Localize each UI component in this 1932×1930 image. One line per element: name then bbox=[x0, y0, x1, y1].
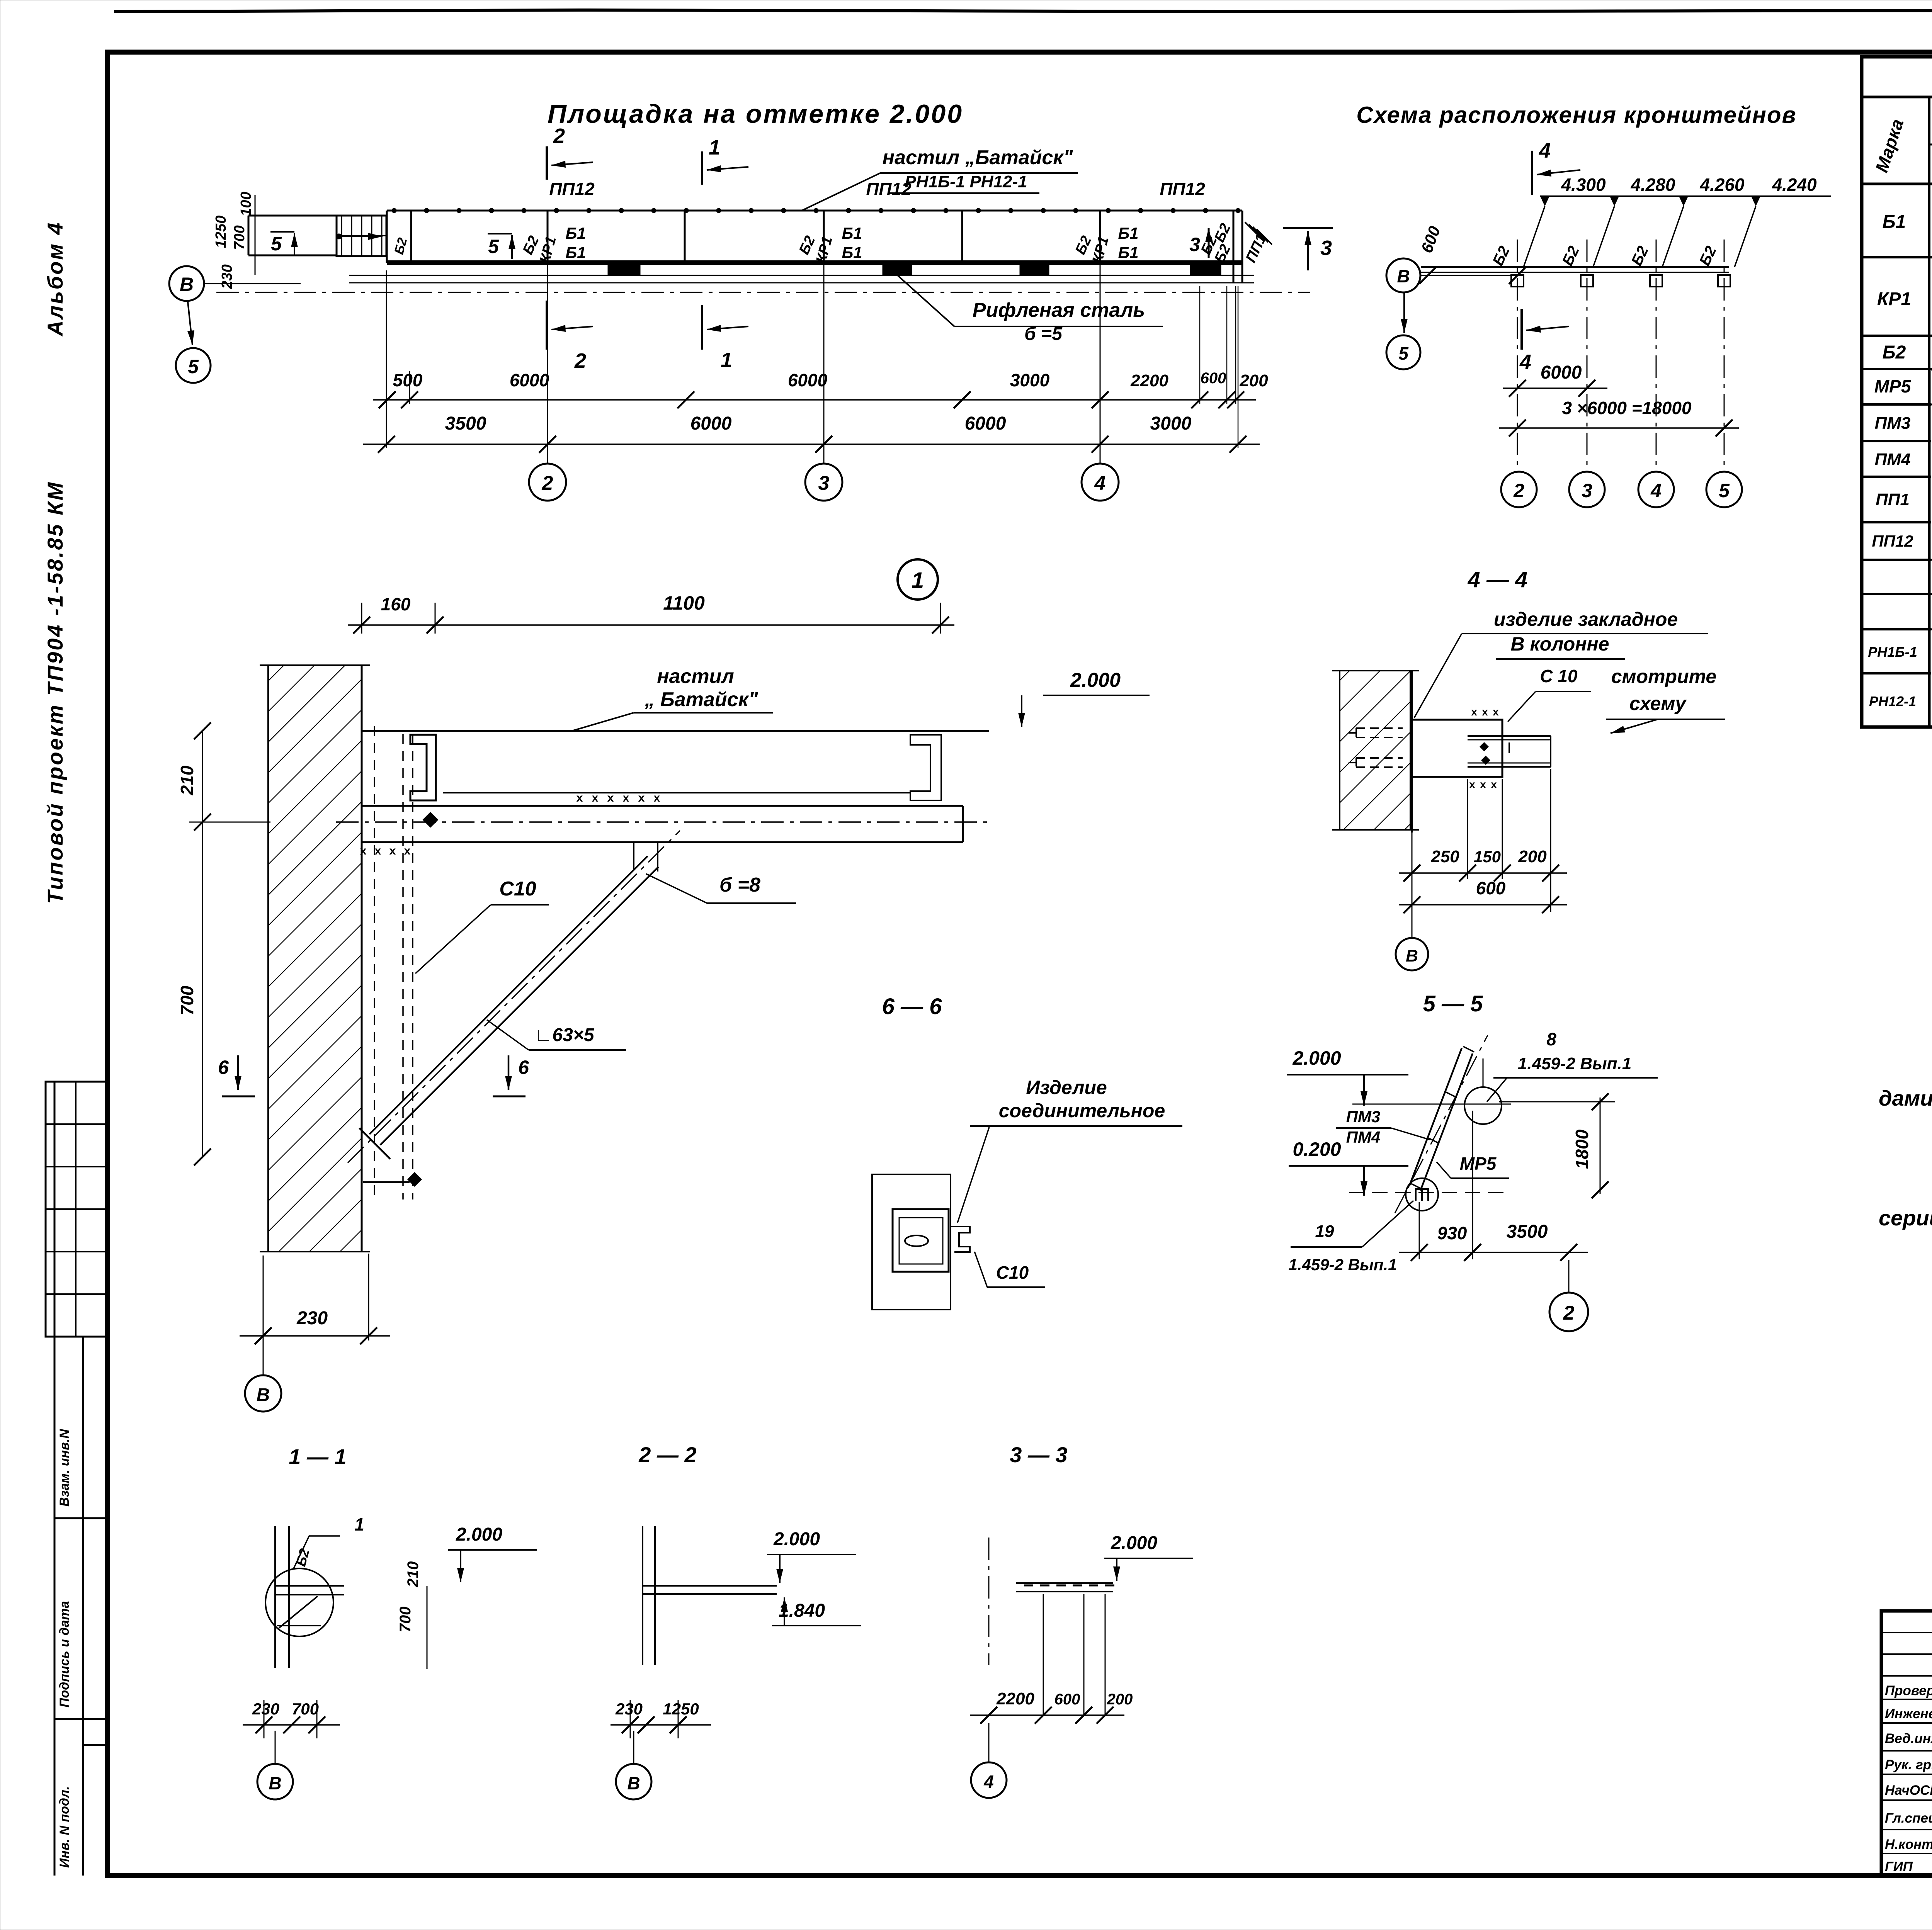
svg-text:230: 230 bbox=[252, 1700, 279, 1718]
svg-text:В: В bbox=[257, 1385, 270, 1405]
svg-text:4 — 4: 4 — 4 bbox=[1468, 567, 1528, 592]
svg-text:2: 2 bbox=[1563, 1302, 1575, 1324]
svg-text:250: 250 bbox=[1430, 847, 1459, 866]
svg-text:В: В bbox=[627, 1773, 640, 1793]
svg-text:2.000: 2.000 bbox=[1070, 669, 1121, 691]
svg-text:Б1: Б1 bbox=[1118, 224, 1138, 242]
svg-text:x: x bbox=[404, 844, 411, 857]
svg-text:ПМ3: ПМ3 bbox=[1875, 414, 1911, 433]
svg-text:3000: 3000 bbox=[1150, 413, 1192, 434]
svg-text:Б1: Б1 bbox=[1118, 243, 1138, 262]
svg-text:4: 4 bbox=[1519, 350, 1531, 374]
svg-text:настил „Батайск": настил „Батайск" bbox=[883, 146, 1073, 169]
svg-text:ПМ3: ПМ3 bbox=[1346, 1108, 1381, 1126]
svg-text:230: 230 bbox=[219, 264, 235, 289]
svg-text:Типовой проект ТП904 -1-58: Типовой проект ТП904 -1-58.85 КМ bbox=[43, 481, 67, 904]
svg-text:смотрите: смотрите bbox=[1611, 666, 1717, 687]
svg-text:x: x bbox=[638, 792, 645, 804]
svg-text:3: 3 bbox=[818, 472, 830, 494]
svg-text:5: 5 bbox=[188, 356, 199, 377]
svg-text:1.459-2 Вып.1: 1.459-2 Вып.1 bbox=[1518, 1054, 1631, 1073]
svg-text:Взам. инв.N: Взам. инв.N bbox=[57, 1429, 72, 1507]
svg-text:4.280: 4.280 bbox=[1630, 175, 1675, 195]
svg-text:x: x bbox=[1482, 706, 1488, 718]
svg-text:настил: настил bbox=[657, 665, 734, 688]
svg-text:Н.контр.: Н.контр. bbox=[1885, 1837, 1932, 1852]
svg-text:150: 150 bbox=[1474, 848, 1501, 866]
svg-text:5: 5 bbox=[1398, 343, 1409, 364]
svg-text:В колонне: В колонне bbox=[1510, 633, 1609, 655]
svg-text:ПМ4: ПМ4 bbox=[1875, 450, 1911, 469]
svg-text:x: x bbox=[607, 792, 614, 804]
svg-text:РН1Б-1 РН12-1: РН1Б-1 РН12-1 bbox=[905, 172, 1027, 191]
svg-text:4.300: 4.300 bbox=[1561, 175, 1606, 195]
svg-text:6000: 6000 bbox=[510, 370, 549, 390]
svg-text:ПМ4: ПМ4 bbox=[1346, 1128, 1381, 1146]
svg-text:700: 700 bbox=[231, 225, 248, 250]
svg-text:100: 100 bbox=[238, 192, 254, 216]
svg-text:2: 2 bbox=[574, 349, 586, 372]
svg-text:Рук. гр.: Рук. гр. bbox=[1885, 1757, 1932, 1772]
svg-text:ПП1: ПП1 bbox=[1876, 490, 1910, 509]
svg-text:МР5: МР5 bbox=[1874, 376, 1912, 396]
svg-text:3: 3 bbox=[1320, 236, 1332, 260]
svg-text:Площадка на отметке 2.000: Площадка на отметке 2.000 bbox=[548, 99, 963, 129]
svg-text:2: 2 bbox=[542, 472, 553, 494]
svg-text:600: 600 bbox=[1054, 1691, 1080, 1708]
svg-text:Альбом 4: Альбом 4 bbox=[43, 221, 67, 337]
svg-text:x: x bbox=[1471, 706, 1477, 718]
svg-text:2 — 2: 2 — 2 bbox=[638, 1442, 696, 1467]
svg-text:6: 6 bbox=[518, 1057, 529, 1078]
svg-text:серии 1.459- 2 Вып. 1.: серии 1.459- 2 Вып. 1. bbox=[1879, 1206, 1932, 1230]
svg-text:600: 600 bbox=[1201, 370, 1226, 387]
svg-text:19: 19 bbox=[1315, 1222, 1334, 1241]
svg-text:0.200: 0.200 bbox=[1293, 1138, 1341, 1160]
svg-text:В: В bbox=[269, 1773, 281, 1793]
svg-text:Б2: Б2 bbox=[1883, 342, 1906, 363]
svg-text:2: 2 bbox=[1513, 480, 1524, 501]
svg-text:x: x bbox=[592, 792, 599, 804]
svg-text:3 — 3: 3 — 3 bbox=[1010, 1442, 1067, 1467]
svg-text:ГИП: ГИП bbox=[1885, 1859, 1913, 1874]
svg-text:соединительное: соединительное bbox=[999, 1100, 1165, 1121]
svg-text:6000: 6000 bbox=[1541, 362, 1582, 383]
svg-text:∟63×5: ∟63×5 bbox=[534, 1025, 594, 1045]
svg-text:x: x bbox=[375, 844, 381, 857]
svg-text:210: 210 bbox=[405, 1561, 422, 1588]
svg-text:5 — 5: 5 — 5 bbox=[1423, 991, 1483, 1016]
svg-text:700: 700 bbox=[177, 985, 197, 1015]
svg-text:210: 210 bbox=[177, 765, 197, 795]
svg-text:2200: 2200 bbox=[1130, 371, 1168, 390]
svg-text:x: x bbox=[1493, 706, 1499, 718]
svg-text:1250: 1250 bbox=[213, 216, 229, 248]
svg-text:3000: 3000 bbox=[1010, 370, 1050, 390]
svg-text:Проверил: Проверил bbox=[1885, 1683, 1932, 1698]
svg-text:3500: 3500 bbox=[445, 413, 486, 434]
svg-text:Гл.спецТО: Гл.спецТО bbox=[1885, 1811, 1932, 1826]
svg-text:2.000: 2.000 bbox=[456, 1524, 502, 1545]
svg-text:ПП12: ПП12 bbox=[1160, 179, 1205, 199]
svg-text:930: 930 bbox=[1437, 1223, 1467, 1243]
svg-text:6: 6 bbox=[218, 1057, 229, 1078]
svg-text:2.000: 2.000 bbox=[1292, 1047, 1341, 1069]
svg-text:Инв. N подл.: Инв. N подл. bbox=[57, 1786, 72, 1868]
svg-text:С10: С10 bbox=[996, 1262, 1029, 1283]
svg-text:1800: 1800 bbox=[1572, 1129, 1592, 1169]
svg-text:5: 5 bbox=[488, 236, 499, 257]
svg-text:Рифленая сталь: Рифленая сталь bbox=[973, 299, 1145, 321]
svg-text:В: В bbox=[1406, 946, 1418, 965]
svg-text:230: 230 bbox=[296, 1308, 328, 1329]
svg-text:160: 160 bbox=[381, 594, 411, 614]
svg-text:700: 700 bbox=[292, 1700, 319, 1718]
svg-text:Инженер: Инженер bbox=[1885, 1706, 1932, 1721]
svg-text:6 — 6: 6 — 6 bbox=[882, 994, 942, 1019]
svg-text:Подпись и дата: Подпись и дата bbox=[57, 1601, 72, 1707]
svg-text:2.000: 2.000 bbox=[773, 1529, 820, 1549]
svg-text:изделие закладное: изделие закладное bbox=[1494, 608, 1678, 630]
svg-text:230: 230 bbox=[615, 1700, 643, 1718]
svg-text:x: x bbox=[389, 844, 396, 857]
svg-text:4.260: 4.260 bbox=[1699, 175, 1745, 195]
svg-text:С10: С10 bbox=[499, 878, 536, 900]
svg-text:4: 4 bbox=[1650, 480, 1662, 501]
svg-text:200: 200 bbox=[1518, 847, 1547, 866]
svg-text:x: x bbox=[577, 792, 583, 804]
svg-text:3: 3 bbox=[1582, 480, 1592, 501]
svg-text:1: 1 bbox=[721, 348, 732, 372]
svg-text:Схема расположения кронштей: Схема расположения кронштейнов bbox=[1356, 102, 1797, 128]
svg-text:4.240: 4.240 bbox=[1772, 175, 1817, 195]
svg-text:дами Э42 по ГОСТ 9467-75.: дами Э42 по ГОСТ 9467-75. bbox=[1879, 1086, 1932, 1110]
svg-text:x: x bbox=[1469, 778, 1475, 790]
svg-text:1250: 1250 bbox=[663, 1700, 699, 1718]
svg-text:Б1: Б1 bbox=[565, 243, 586, 262]
svg-text:1.459-2 Вып.1: 1.459-2 Вып.1 bbox=[1289, 1256, 1397, 1274]
svg-text:МР5: МР5 bbox=[1460, 1154, 1497, 1174]
svg-text:200: 200 bbox=[1107, 1691, 1133, 1708]
svg-text:6000: 6000 bbox=[965, 413, 1006, 434]
svg-text:РН12-1: РН12-1 bbox=[1869, 693, 1916, 709]
svg-text:3: 3 bbox=[1189, 234, 1200, 255]
svg-text:200: 200 bbox=[1239, 371, 1268, 390]
svg-text:ПП12: ПП12 bbox=[1872, 532, 1913, 550]
svg-text:x: x bbox=[1480, 778, 1486, 790]
svg-text:Б1: Б1 bbox=[1883, 212, 1906, 232]
svg-text:3 ×6000 =18000: 3 ×6000 =18000 bbox=[1562, 398, 1692, 418]
svg-text:6000: 6000 bbox=[788, 370, 828, 390]
svg-text:1: 1 bbox=[354, 1514, 364, 1534]
svg-text:500: 500 bbox=[393, 370, 423, 390]
svg-text:x: x bbox=[654, 792, 660, 804]
svg-text:Б1: Б1 bbox=[565, 224, 586, 242]
svg-text:РН1Б-1: РН1Б-1 bbox=[1868, 644, 1917, 660]
svg-text:С 10: С 10 bbox=[1540, 666, 1578, 686]
svg-text:НачОСП-1: НачОСП-1 bbox=[1885, 1783, 1932, 1798]
svg-text:8: 8 bbox=[1546, 1029, 1556, 1049]
svg-text:Изделие: Изделие bbox=[1026, 1077, 1107, 1098]
svg-text:700: 700 bbox=[397, 1607, 414, 1633]
svg-text:В: В bbox=[180, 274, 194, 295]
svg-text:4: 4 bbox=[983, 1772, 994, 1792]
svg-text:2200: 2200 bbox=[996, 1689, 1034, 1708]
svg-text:В: В bbox=[1397, 266, 1410, 286]
svg-text:Вед.инж: Вед.инж bbox=[1885, 1731, 1932, 1746]
svg-text:2.000: 2.000 bbox=[1111, 1533, 1157, 1553]
svg-text:4: 4 bbox=[1539, 139, 1551, 162]
svg-text:КР1: КР1 bbox=[1877, 289, 1911, 309]
svg-text:x: x bbox=[360, 844, 367, 857]
svg-text:2: 2 bbox=[553, 124, 565, 148]
svg-text:1 — 1: 1 — 1 bbox=[289, 1444, 346, 1469]
svg-text:4: 4 bbox=[1094, 472, 1106, 494]
svg-text:1100: 1100 bbox=[663, 592, 705, 614]
svg-text:1: 1 bbox=[709, 136, 720, 159]
svg-text:1: 1 bbox=[912, 568, 924, 593]
svg-text:б =8: б =8 bbox=[719, 874, 760, 896]
svg-text:6000: 6000 bbox=[690, 413, 732, 434]
svg-text:„ Батайск": „ Батайск" bbox=[644, 688, 758, 711]
svg-text:5: 5 bbox=[271, 233, 282, 255]
svg-text:5: 5 bbox=[1719, 480, 1730, 501]
svg-text:схему: схему bbox=[1629, 693, 1687, 714]
svg-text:600: 600 bbox=[1476, 878, 1506, 898]
svg-text:x: x bbox=[623, 792, 629, 804]
svg-text:x: x bbox=[1491, 778, 1497, 790]
svg-text:ПП12: ПП12 bbox=[549, 179, 595, 199]
svg-text:Б1: Б1 bbox=[842, 243, 862, 262]
svg-text:3500: 3500 bbox=[1507, 1222, 1548, 1242]
svg-text:Б1: Б1 bbox=[842, 224, 862, 242]
